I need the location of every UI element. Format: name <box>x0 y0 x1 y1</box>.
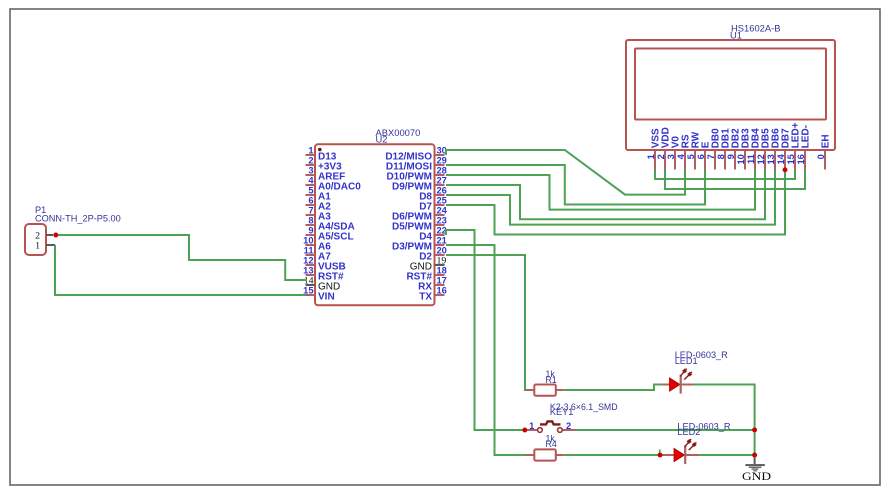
U2 pin 10 A6 stub <box>306 244 316 246</box>
LED2 light arrows <box>685 439 697 450</box>
U2 pin 16 TX stub <box>435 294 445 296</box>
resistor R4 leads <box>526 454 535 456</box>
wire R1 to LED1 anode <box>564 385 662 391</box>
U2 pin 22 D4 stub <box>435 234 445 236</box>
svg-text:2: 2 <box>566 421 571 431</box>
U1 pin 2 VDD stub <box>664 150 666 170</box>
U2 pin 19 GND stub <box>435 264 445 266</box>
svg-text:1: 1 <box>35 242 40 252</box>
U2 pin 29 D11/MOSI stub <box>435 164 445 166</box>
svg-text:3: 3 <box>308 165 313 175</box>
svg-text:2: 2 <box>656 154 666 159</box>
junction dot at LCD DB7 pin 14 <box>783 167 788 172</box>
wire net LCD VSS to LED+ <box>655 170 795 180</box>
U2 pin 21 D3/PWM stub <box>435 244 445 246</box>
svg-text:16: 16 <box>437 285 447 295</box>
svg-text:7: 7 <box>308 205 313 215</box>
svg-text:14: 14 <box>776 153 786 164</box>
U1 pin 9 DB2 stub <box>734 150 736 170</box>
U2 pin 28 D10/PWM stub <box>435 174 445 176</box>
LED1 triangle <box>670 378 681 391</box>
push button KEY1 actuator bar <box>540 421 561 424</box>
LED1 cathode bar <box>680 375 682 394</box>
U2 pin 30 D12/MISO stub <box>435 154 445 156</box>
svg-text:25: 25 <box>437 195 447 205</box>
U2 pin 4 A0/DAC0 stub <box>306 184 316 186</box>
svg-text:TX: TX <box>419 292 432 303</box>
ground symbol <box>745 455 764 471</box>
U2 pin 14 GND stub <box>306 284 316 286</box>
svg-text:11: 11 <box>746 154 756 164</box>
LED1 cathode lead <box>681 384 694 386</box>
svg-text:5: 5 <box>686 154 696 159</box>
svg-text:9: 9 <box>726 154 736 159</box>
svg-text:10: 10 <box>736 154 746 164</box>
svg-text:18: 18 <box>437 265 447 275</box>
U1 pin 12 DB5 stub <box>764 150 766 170</box>
resistor R1 body <box>534 385 556 396</box>
svg-text:13: 13 <box>766 154 776 164</box>
LED2 cathode lead <box>685 454 699 456</box>
U1 pin 11 DB4 stub <box>754 150 756 170</box>
U2 pin 8 A4/SDA stub <box>306 224 316 226</box>
U1 pin 8 DB1 stub <box>724 150 726 170</box>
svg-text:12: 12 <box>303 255 313 265</box>
svg-text:8: 8 <box>308 215 313 225</box>
LED1 light arrows <box>680 369 692 380</box>
wire net D7 to LCD DB7 <box>446 170 785 235</box>
wire LED1 cathode to GND rail <box>694 385 755 456</box>
U1 pin 1 VSS stub <box>654 150 656 170</box>
svg-text:2: 2 <box>308 155 313 165</box>
U1 pin 4 RS stub <box>684 150 686 170</box>
svg-text:LED1: LED1 <box>675 356 698 366</box>
svg-text:15: 15 <box>303 285 313 295</box>
svg-text:1: 1 <box>529 421 534 431</box>
wire net P1 pin1 to U2 VIN pin15 <box>55 245 306 295</box>
junction dot LED1/KEY net <box>752 427 757 432</box>
LED2 anode lead <box>661 454 674 456</box>
svg-text:8: 8 <box>716 154 726 159</box>
svg-text:9: 9 <box>308 225 313 235</box>
svg-text:10: 10 <box>303 235 313 245</box>
svg-text:0: 0 <box>816 154 826 159</box>
U1 pin 7 DB0 stub <box>714 150 716 170</box>
svg-text:LED-: LED- <box>801 125 812 148</box>
U2 pin 5 A1 stub <box>306 194 316 196</box>
svg-text:15: 15 <box>786 154 796 164</box>
resistor R1 leads <box>526 389 535 391</box>
svg-text:16: 16 <box>796 154 806 164</box>
U2 pin 1 indicator dot <box>318 148 322 152</box>
wire net D12/MISO to LCD RS <box>446 150 685 195</box>
svg-text:23: 23 <box>437 215 447 225</box>
svg-text:R4: R4 <box>546 439 557 449</box>
junction dot at P1 pin 2 <box>53 233 58 238</box>
wire net LCD VDD to LED- <box>665 170 805 190</box>
U1 pin 13 DB6 stub <box>774 150 776 170</box>
wire net D9/PWM to LCD DB5 <box>446 170 765 220</box>
LED2 triangle <box>674 448 685 461</box>
U2 pin 3 AREF stub <box>306 174 316 176</box>
wire LED2 cathode to GND rail <box>700 454 755 456</box>
U2 pin 2 +3V3 stub <box>306 164 316 166</box>
U2 pin 23 D5/PWM stub <box>435 224 445 226</box>
U2 pin 18 RST# stub <box>435 274 445 276</box>
U2 pin 12 VUSB stub <box>306 264 316 266</box>
svg-text:21: 21 <box>437 235 447 245</box>
U1 pin 5 RW stub <box>694 150 696 170</box>
svg-text:27: 27 <box>437 175 447 185</box>
wire net D11/MOSI to LCD E <box>446 165 705 205</box>
svg-text:VIN: VIN <box>318 292 335 303</box>
svg-text:3: 3 <box>666 154 676 159</box>
svg-text:U2: U2 <box>376 133 388 144</box>
svg-text:17: 17 <box>437 275 447 285</box>
svg-text:4: 4 <box>676 153 686 159</box>
wire net P1 pin2 to U2 GND pin14 <box>56 235 307 280</box>
resistor R4 body <box>534 449 556 460</box>
junction dot at KEY1 pin 1 <box>522 428 527 433</box>
svg-text:1: 1 <box>308 145 313 155</box>
svg-text:1: 1 <box>646 154 656 159</box>
svg-text:11: 11 <box>304 245 314 255</box>
U2 pin 20 D2 stub <box>435 254 445 256</box>
U1 pin 6 E stub <box>704 150 706 170</box>
U2 pin 26 D8 stub <box>435 194 445 196</box>
svg-text:29: 29 <box>437 155 447 165</box>
svg-text:12: 12 <box>756 154 766 164</box>
wire net D8 to LCD DB6 <box>446 170 775 225</box>
U1 pin EH stub <box>824 150 826 170</box>
svg-text:KEY1: KEY1 <box>550 407 574 417</box>
U2 pin 7 A3 stub <box>306 214 316 216</box>
svg-text:26: 26 <box>437 185 447 195</box>
svg-text:EH: EH <box>821 134 832 148</box>
junction dot at LED2 anode <box>658 453 663 458</box>
svg-text:CONN-TH_2P-P5.00: CONN-TH_2P-P5.00 <box>35 213 121 223</box>
U2 pin 13 RST# stub <box>306 274 316 276</box>
push button KEY1 leads <box>525 429 538 431</box>
wire net D10/PWM to LCD DB4 <box>446 170 755 210</box>
svg-text:20: 20 <box>437 245 447 255</box>
U2 pin 27 D9/PWM stub <box>435 184 445 186</box>
svg-text:24: 24 <box>437 205 448 215</box>
svg-text:6: 6 <box>308 195 313 205</box>
wire KEY1 pin2 to GND rail <box>576 429 755 431</box>
wire net D3/PWM to R4 <box>446 245 530 455</box>
svg-text:GND: GND <box>742 471 771 483</box>
svg-text:6: 6 <box>696 154 706 159</box>
U1 pin 14 DB7 stub <box>784 150 786 170</box>
U1 pin 16 LED- stub <box>804 150 806 170</box>
U2 pin 24 D6/PWM stub <box>435 214 445 216</box>
U2 pin 1 D13 stub <box>306 154 316 156</box>
svg-text:2: 2 <box>35 231 40 241</box>
svg-text:7: 7 <box>706 154 716 159</box>
svg-text:28: 28 <box>437 165 447 175</box>
P1 pin 1 stub <box>46 244 55 246</box>
IC U2 ABX00070 body <box>315 144 435 305</box>
U2 pin 6 A2 stub <box>306 204 316 206</box>
U2 pin 17 RX stub <box>435 284 445 286</box>
U1 pin 10 DB3 stub <box>744 150 746 170</box>
U1 pin 15 LED+ stub <box>794 150 796 170</box>
U2 pin 9 A5/SCL stub <box>306 234 316 236</box>
connector P1 CONN-TH_2P-P5.00 body <box>25 224 46 255</box>
svg-text:U1: U1 <box>730 30 742 41</box>
push button KEY1 contacts <box>538 428 543 433</box>
U2 pin 15 VIN stub <box>306 294 316 296</box>
svg-text:5: 5 <box>308 185 313 195</box>
junction dot GND node <box>752 453 757 458</box>
U2 pin 25 D7 stub <box>435 204 445 206</box>
wire net D4 to KEY1 pin 1 <box>446 230 525 430</box>
LED1 anode lead <box>662 384 670 386</box>
wire stub above LED2 anode junction <box>659 450 661 456</box>
svg-text:4: 4 <box>308 175 314 185</box>
U1 pin 3 V0 stub <box>674 150 676 170</box>
P1 pin 2 stub <box>46 234 53 236</box>
wire net D2 to R1 <box>446 255 530 390</box>
svg-text:13: 13 <box>303 265 313 275</box>
svg-text:LED2: LED2 <box>677 427 700 437</box>
wire R4 to LED2 anode <box>564 454 660 456</box>
svg-text:R1: R1 <box>546 375 557 385</box>
U2 pin 11 A7 stub <box>306 254 316 256</box>
LCD module U1 HS1602A-B body <box>626 40 835 150</box>
LED2 cathode bar <box>684 445 686 464</box>
